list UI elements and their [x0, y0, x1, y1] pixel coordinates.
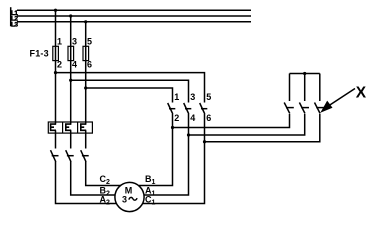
star contactor pole1 crossbar [286, 107, 294, 109]
star contactor pole3 blade [315, 103, 321, 114]
junction dot star rail middle [303, 72, 306, 75]
phase rail L2 [17, 15, 251, 17]
svg-text:2: 2 [57, 60, 62, 70]
star contactor pole3 upper wire [319, 74, 321, 102]
main contactor contact pole2 crossbar [67, 155, 74, 157]
svg-text:1: 1 [57, 36, 62, 46]
delta contactor pole2 blade [184, 103, 189, 114]
junction dot delta pole1 bottom [171, 126, 174, 129]
feeder wire phase3 to delta contact 1 [86, 88, 173, 103]
wire motor C1 up to delta contact 6 [143, 142, 205, 204]
delta contactor pole1 crossbar [169, 108, 175, 110]
wire delta2 to star pole1 [173, 114, 290, 128]
wire fuse2 to overload [70, 61, 72, 125]
wire delta4 to star pole2 [189, 114, 305, 135]
wire overload pole2 down [70, 130, 72, 148]
fuse F2 body [68, 46, 74, 60]
svg-text:3: 3 [122, 195, 127, 205]
svg-text:B1: B1 [145, 174, 156, 186]
fuse F2 wire through [70, 46, 72, 60]
star contactor pole2 blade [299, 103, 305, 114]
svg-text:L3: L3 [11, 22, 18, 29]
main contactor contact pole1 blade [51, 150, 56, 162]
svg-text:2: 2 [174, 113, 179, 123]
svg-text:F1-3: F1-3 [30, 48, 49, 58]
junction dot feeder phase1 [54, 71, 57, 74]
junction dot delta pole2 bottom [187, 133, 190, 136]
svg-text:5: 5 [87, 36, 92, 46]
wire contact2 to motor B2 [71, 162, 115, 196]
star contactor pole2 upper wire [304, 74, 306, 102]
star contactor pole3 crossbar [316, 107, 324, 109]
star contactor pole2 crossbar [301, 107, 309, 109]
star contactor pole1 upper wire [289, 74, 291, 102]
main contactor contact pole3 blade [81, 150, 86, 162]
fuse F1 body [53, 46, 59, 60]
delta contactor pole2 lower wire [188, 114, 190, 135]
delta contactor pole2 crossbar [185, 108, 191, 110]
junction dot feeder phase2 [69, 79, 72, 82]
main contactor contact pole3 crossbar [82, 155, 89, 157]
overload cell divider 1 [62, 122, 64, 133]
supply bus bracket [10, 7, 12, 26]
wire contact3 to motor C2 [86, 162, 121, 186]
junction dot rail L1 drop [54, 9, 57, 12]
phase rail L3 [17, 21, 251, 23]
delta contactor pole1 lower wire [172, 114, 174, 128]
junction dot feeder phase3 [84, 86, 87, 89]
callout arrow shaft to X [326, 89, 355, 108]
delta contactor pole3 lower wire [204, 114, 206, 142]
delta contactor pole1 blade [168, 103, 173, 114]
svg-text:1: 1 [174, 92, 179, 102]
junction dot rail L2 drop [69, 14, 72, 17]
wire contact1 to motor A2 [56, 162, 117, 204]
wire drop L3 to fuse 3 [85, 22, 87, 47]
main contactor contact pole2 blade [66, 150, 71, 162]
wire motor B1 up to delta contact 2 [139, 128, 173, 186]
svg-text:X: X [356, 84, 367, 101]
phase rail L1 [17, 9, 251, 11]
overload relay F2 box [48, 122, 92, 133]
overload heater element pole2 [66, 124, 71, 130]
wire overload pole1 down [55, 130, 57, 148]
feeder wire phase1 to delta contact 5 [56, 73, 205, 103]
wire fuse3 to overload [85, 61, 87, 125]
delta contactor pole3 crossbar [201, 108, 207, 110]
wire fuse1 to overload [55, 61, 57, 125]
fuse F1 wire through [55, 46, 57, 60]
motor M1 circle [115, 182, 144, 211]
svg-text:4: 4 [190, 113, 195, 123]
overload heater element pole3 [81, 124, 86, 130]
svg-text:3: 3 [190, 92, 195, 102]
wire motor A1 up to delta contact 4 [144, 135, 188, 195]
svg-text:3: 3 [72, 36, 77, 46]
junction dot rail L3 drop [84, 20, 87, 23]
fuse F3 body [83, 46, 89, 60]
callout arrowhead [320, 101, 332, 113]
fuse F3 wire through [85, 46, 87, 60]
svg-text:6: 6 [87, 60, 92, 70]
feeder wire phase2 to delta contact 3 [71, 80, 189, 102]
wire drop L2 to fuse 2 [70, 16, 72, 46]
overload cell divider 2 [77, 122, 79, 133]
svg-text:4: 4 [72, 60, 77, 70]
wire drop L1 to fuse 1 [55, 10, 57, 46]
wire delta6 to star pole3 [205, 114, 320, 142]
star contactor pole1 blade [284, 103, 290, 114]
delta contactor pole3 blade [200, 103, 205, 114]
svg-text:6: 6 [206, 113, 211, 123]
svg-text:C2: C2 [100, 174, 111, 186]
svg-text:5: 5 [206, 92, 211, 102]
star point rail [290, 73, 320, 75]
junction dot delta pole3 bottom [203, 140, 206, 143]
motor tilde [129, 197, 137, 200]
overload heater element pole1 [51, 124, 56, 130]
wire overload pole3 down [85, 130, 87, 148]
main contactor contact pole1 crossbar [52, 155, 59, 157]
